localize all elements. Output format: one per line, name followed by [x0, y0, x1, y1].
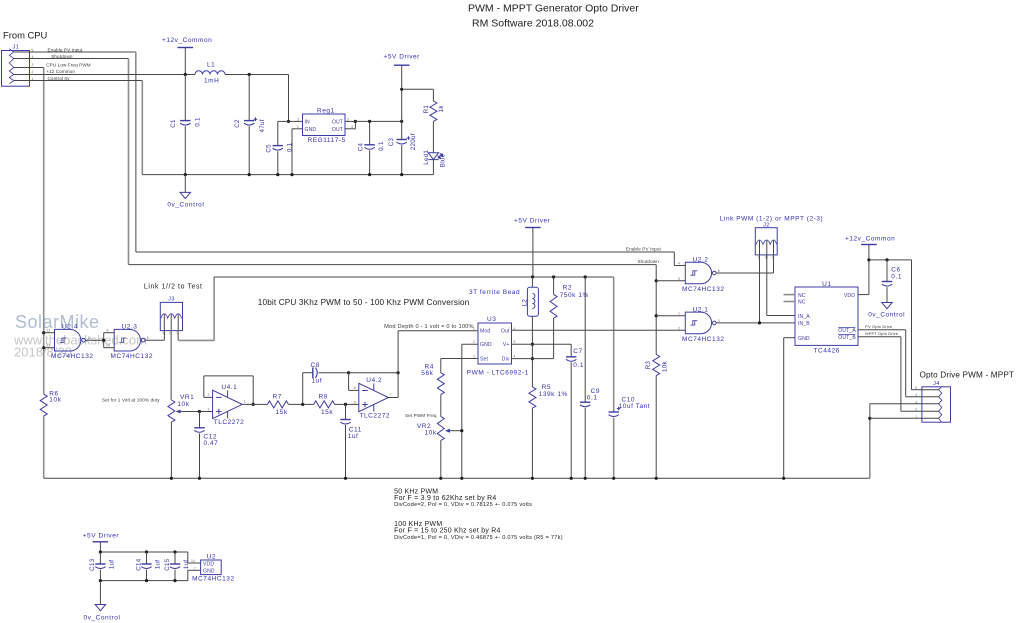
- wire U3 Div row to R2: [512, 358, 554, 360]
- wire U2.2 pin5 stub: [656, 280, 685, 282]
- wire U3 V+ row to C7: [512, 343, 572, 345]
- resistor R2 with top wire: [553, 277, 555, 295]
- svg-text:C2: C2: [234, 119, 241, 128]
- svg-text:C1: C1: [170, 119, 177, 128]
- svg-text:For F = 15 to 250 Khz set by R: For F = 15 to 250 Khz set by R4: [394, 528, 501, 535]
- wire 0v_Control rail (top): [142, 174, 433, 176]
- svg-text:1: 1: [297, 125, 299, 129]
- junction C13 top: [99, 550, 102, 553]
- wire VR1 bottom to rail: [170, 422, 172, 478]
- wire Enable PV Input drop to U2.2 pin4: [673, 252, 675, 266]
- svg-text:15k: 15k: [276, 409, 288, 416]
- svg-text:2: 2: [347, 117, 349, 121]
- wire R4 to VR2: [440, 395, 442, 417]
- svg-text:RM Software 2018.08.002: RM Software 2018.08.002: [472, 18, 594, 30]
- svg-text:CPU Low Freq PWM: CPU Low Freq PWM: [46, 62, 91, 67]
- svg-text:4: 4: [915, 393, 917, 397]
- svg-text:3: 3: [297, 117, 299, 121]
- trimmer VR2: [437, 417, 444, 441]
- svg-text:REG1117-5: REG1117-5: [308, 137, 346, 144]
- connector J4: [922, 387, 951, 422]
- svg-text:1uf: 1uf: [348, 433, 359, 440]
- resistor R5: [529, 387, 536, 408]
- svg-text:4: 4: [514, 355, 516, 359]
- junction C4 bottom: [368, 173, 371, 176]
- wire U2.1 out to U1 IN_B: [717, 322, 795, 324]
- svg-text:R1: R1: [423, 105, 430, 114]
- svg-text:15k: 15k: [321, 409, 333, 416]
- nand gate U2.3: [114, 329, 140, 351]
- junction U2.3 input tie: [102, 339, 105, 342]
- capacitor C6: [886, 260, 888, 282]
- svg-text:J3: J3: [168, 297, 175, 303]
- op-amp U4.1: [213, 390, 243, 418]
- wire Reg1 OUT pins join: [345, 120, 355, 122]
- svg-text:Div: Div: [502, 357, 510, 363]
- junction rail VR2: [439, 477, 442, 480]
- svg-text:7: 7: [194, 566, 196, 570]
- svg-text:1: 1: [678, 312, 680, 316]
- wire +12v to J4 pin5: [869, 259, 912, 261]
- wire J2 pin2 to IN_A: [766, 255, 768, 316]
- wire J1 pin2 +12 Common to rail: [30, 74, 196, 76]
- IC U1 box: [795, 287, 858, 345]
- wire U3 Set to R4: [441, 358, 478, 360]
- svg-text:R3: R3: [645, 360, 652, 369]
- svg-text:5: 5: [514, 340, 516, 344]
- junction rail U1 GND: [782, 477, 785, 480]
- svg-text:56k: 56k: [421, 370, 433, 377]
- svg-text:12: 12: [47, 329, 51, 333]
- inductor L1: [195, 71, 225, 75]
- capacitor C12: [199, 412, 201, 428]
- wire U4.2 - input: [348, 373, 350, 391]
- svg-text:R5: R5: [542, 384, 551, 391]
- capacitor C2: [248, 75, 250, 121]
- svg-text:Blue: Blue: [439, 153, 446, 167]
- svg-text:MC74HC132: MC74HC132: [51, 353, 94, 360]
- svg-text:1uf: 1uf: [108, 560, 115, 570]
- wire C8 branch up: [302, 373, 304, 405]
- wire U1 OUT_A to J4 pin4: [858, 329, 906, 331]
- svg-text:220uf: 220uf: [410, 133, 417, 150]
- svg-text:U2.1: U2.1: [693, 307, 709, 314]
- svg-text:L2: L2: [521, 299, 528, 307]
- nand gate U2.2: [685, 262, 711, 284]
- svg-text:0v_Control: 0v_Control: [84, 615, 121, 622]
- wire Shutdown horizontal to R3 node: [129, 264, 657, 266]
- junction C3 top: [400, 120, 403, 123]
- svg-text:10k: 10k: [177, 401, 189, 408]
- capacitor C11: [345, 404, 347, 419]
- wire J4 pin3 to ground: [870, 403, 922, 405]
- wire J3 pin2 to VR1: [170, 331, 172, 400]
- junction C15 bottom: [173, 579, 176, 582]
- svg-text:4: 4: [678, 262, 680, 266]
- svg-text:2: 2: [473, 340, 475, 344]
- junction C6 tap: [885, 258, 888, 261]
- wire J1 pin3 CPU PWM horizontal: [30, 67, 44, 69]
- junction L1/C2: [248, 73, 251, 76]
- svg-text:1k: 1k: [438, 105, 445, 113]
- ground 0v_Control (bottom): [95, 605, 105, 611]
- svg-text:9: 9: [107, 329, 109, 333]
- svg-text:R8: R8: [319, 393, 328, 400]
- svg-text:Set for 1 Volt at 100% duty: Set for 1 Volt at 100% duty: [102, 397, 160, 402]
- IC U3 box: [478, 323, 512, 364]
- junction rail VR1: [170, 477, 173, 480]
- wire U2.3 out to J3 pin1: [145, 339, 164, 341]
- svg-text:L1: L1: [207, 62, 215, 69]
- svg-text:10k: 10k: [49, 397, 61, 404]
- junction Shutdown at U2.1: [655, 314, 658, 317]
- svg-text:+12v_Common: +12v_Common: [845, 235, 895, 242]
- svg-text:TLC2272: TLC2272: [360, 412, 391, 419]
- junction C1 bottom: [184, 173, 187, 176]
- wire U2.4 out to U2.3 inputs: [85, 339, 103, 341]
- wire feedback row to output: [349, 372, 399, 374]
- junction C3 bottom: [400, 173, 403, 176]
- svg-text:2: 2: [32, 70, 34, 74]
- svg-text:C6: C6: [891, 267, 900, 274]
- junction rail C10: [612, 477, 615, 480]
- wire U1 GND to rail: [784, 337, 795, 339]
- svg-text:DivCode=2, Pol = 0, VDiv = 0.7: DivCode=2, Pol = 0, VDiv = 0.78125 +- 0.…: [394, 502, 532, 508]
- svg-text:1: 1: [473, 327, 475, 331]
- resistor R4: [437, 373, 444, 395]
- svg-text:3: 3: [32, 63, 34, 67]
- junction rail C12: [198, 477, 201, 480]
- ferrite bead L2: [531, 277, 533, 287]
- wire J1 pin5 Enable PV Input horizontal: [30, 51, 136, 53]
- wire R1 to Led1: [432, 121, 434, 152]
- svg-text:PV Opto Drive: PV Opto Drive: [865, 324, 893, 329]
- junction VR2 wiper to GND line: [460, 429, 463, 432]
- svg-text:IN: IN: [305, 120, 311, 126]
- svg-text:7: 7: [390, 393, 392, 397]
- svg-text:+5V Driver: +5V Driver: [83, 532, 120, 539]
- svg-text:Set PWM Freq: Set PWM Freq: [405, 413, 437, 418]
- connector J2: [755, 228, 777, 255]
- svg-text:10uf Tant: 10uf Tant: [619, 403, 651, 410]
- svg-text:0.1: 0.1: [287, 142, 294, 152]
- wire 0v rail (bottom block): [100, 580, 187, 582]
- svg-text:GND: GND: [305, 127, 317, 133]
- svg-text:5: 5: [678, 277, 680, 281]
- svg-text:139k 1%: 139k 1%: [539, 391, 568, 398]
- svg-text:DivCode=1, Pol = 0, VDiv = 0.4: DivCode=1, Pol = 0, VDiv = 0.46875 +- 0.…: [394, 535, 563, 541]
- svg-text:Reg1: Reg1: [317, 108, 335, 115]
- svg-text:10k: 10k: [425, 430, 437, 437]
- svg-text:0v_Control: 0v_Control: [167, 202, 204, 209]
- svg-text:Opto Drive PWM - MPPT: Opto Drive PWM - MPPT: [920, 371, 1015, 380]
- svg-text:OUT: OUT: [332, 127, 343, 133]
- wire +5V node across C4 C3: [355, 120, 401, 122]
- svg-text:8: 8: [147, 336, 149, 340]
- svg-text:0v_Control: 0v_Control: [868, 311, 905, 318]
- junction IN_B at J2 pin1: [758, 321, 761, 324]
- wire R7 to R8: [288, 403, 313, 405]
- svg-text:Link PWM (1-2) or MPPT (2-3): Link PWM (1-2) or MPPT (2-3): [720, 215, 823, 222]
- svg-text:0.1: 0.1: [378, 141, 385, 151]
- junction R7/R8/C8: [301, 403, 304, 406]
- svg-text:R7: R7: [273, 393, 282, 400]
- svg-text:GND: GND: [480, 342, 492, 348]
- svg-text:J4: J4: [933, 381, 940, 387]
- svg-text:GND: GND: [798, 336, 810, 342]
- wire U1 OUT_B to J4 pin2: [858, 336, 901, 338]
- svg-text:TC4426: TC4426: [814, 348, 840, 355]
- svg-text:U2: U2: [207, 553, 216, 560]
- wire U4.1 feedback loop: [204, 396, 213, 398]
- op-amp U4.2: [359, 383, 389, 411]
- svg-text:Enable PV Input: Enable PV Input: [626, 247, 662, 252]
- capacitor C3: [401, 121, 403, 139]
- svg-text:3T ferrite Bead: 3T ferrite Bead: [469, 289, 520, 296]
- capacitor C15: [174, 552, 176, 564]
- junction Reg1 GND bottom: [290, 173, 293, 176]
- wire Enable PV Input horizontal to U2.2: [136, 251, 675, 253]
- nand gate U2.1: [685, 312, 711, 334]
- capacitor C5: [273, 145, 283, 147]
- wire J4 pin1 stub: [870, 417, 922, 419]
- junction Shutdown at U2.2: [655, 279, 658, 282]
- svg-text:Set: Set: [480, 357, 488, 363]
- svg-text:C8: C8: [311, 362, 320, 369]
- svg-text:5: 5: [915, 386, 917, 390]
- resistor R1: [430, 101, 437, 121]
- svg-text:U4.2: U4.2: [366, 377, 382, 384]
- svg-text:OUT_A: OUT_A: [838, 328, 856, 334]
- svg-text:13: 13: [47, 344, 51, 348]
- capacitor C13: [99, 552, 101, 564]
- wire Shutdown vertical: [128, 59, 130, 265]
- regulator Reg1 box: [303, 114, 346, 136]
- svg-text:OUT: OUT: [332, 120, 343, 126]
- svg-text:MC74HC132: MC74HC132: [682, 286, 725, 293]
- svg-text:2: 2: [208, 393, 210, 397]
- junction U4.2 output node: [397, 371, 400, 374]
- junction VR1 wiper node: [198, 410, 201, 413]
- wire U4.2 out up to Mod: [387, 397, 399, 399]
- svg-text:1: 1: [162, 331, 164, 335]
- svg-text:10k: 10k: [662, 361, 669, 372]
- svg-text:0.1: 0.1: [891, 274, 902, 281]
- svg-text:0.1: 0.1: [587, 394, 598, 401]
- svg-text:Shutdown: Shutdown: [638, 259, 660, 264]
- wire J1 pin1 Control 0v horizontal: [30, 80, 143, 82]
- svg-text:From CPU: From CPU: [3, 30, 48, 41]
- wire J1 pin4 Shutdown horizontal: [30, 58, 129, 60]
- svg-text:6: 6: [718, 269, 720, 273]
- svg-text:2: 2: [915, 408, 917, 412]
- junction +5V at L2: [531, 275, 534, 278]
- wire Enable PV Input vertical: [135, 52, 137, 252]
- junction +5V at C9: [584, 275, 587, 278]
- svg-text:+12 Common: +12 Common: [46, 69, 75, 74]
- junction C15 top: [173, 550, 176, 553]
- wire to ground (bottom block): [99, 581, 101, 605]
- svg-text:C7: C7: [573, 348, 582, 355]
- junction Reg1 OUT: [354, 120, 357, 123]
- wire L1 to C2 node: [225, 74, 289, 76]
- svg-text:C13: C13: [89, 558, 96, 571]
- IC U2 box: [201, 560, 222, 575]
- capacitor C9: [584, 277, 586, 402]
- junction U4.2 feedback: [347, 371, 350, 374]
- svg-text:MC74HC132: MC74HC132: [682, 336, 725, 343]
- junction rail R5: [531, 477, 534, 480]
- wire Shutdown vertical to R3: [655, 265, 657, 355]
- svg-text:IN_A: IN_A: [798, 314, 810, 320]
- svg-text:C3: C3: [388, 138, 395, 147]
- junction Reg1 IN node: [287, 120, 290, 123]
- svg-text:PWM - MPPT Generator Opto Driv: PWM - MPPT Generator Opto Driver: [468, 3, 639, 15]
- junction J4 pin1 tap: [868, 417, 871, 420]
- svg-text:47uf: 47uf: [259, 119, 266, 132]
- svg-text:1uf: 1uf: [183, 560, 190, 570]
- junction U2.4 input A: [42, 331, 45, 334]
- wire U2.4 input stubs: [44, 332, 55, 334]
- junction +12v rail at C1: [184, 73, 187, 76]
- svg-text:Mod Depth 0 - 1 volt = 0 to 10: Mod Depth 0 - 1 volt = 0 to 100%: [384, 324, 474, 330]
- svg-text:10: 10: [106, 344, 110, 348]
- wire to U2 VDD: [187, 552, 189, 563]
- svg-text:C4: C4: [357, 142, 364, 151]
- svg-text:C14: C14: [135, 558, 142, 571]
- capacitor C4: [369, 121, 371, 144]
- junction U4.1 output: [252, 403, 255, 406]
- wire R6 to 0v rail: [43, 416, 45, 478]
- junction C5 bottom: [276, 173, 279, 176]
- svg-text:VDD: VDD: [844, 293, 855, 299]
- svg-text:Out: Out: [501, 329, 510, 335]
- wire J2 pin1 to IN_B node: [759, 255, 761, 323]
- svg-text:3: 3: [208, 408, 210, 412]
- svg-text:750k 1%: 750k 1%: [560, 292, 589, 299]
- svg-text:MPPT Opto Drive: MPPT Opto Drive: [865, 331, 898, 336]
- svg-text:11: 11: [88, 336, 92, 340]
- svg-text:14: 14: [191, 559, 195, 563]
- U1 NC stubs: [784, 294, 796, 296]
- junction L2/V+ row: [531, 343, 534, 346]
- capacitor C10: [613, 277, 615, 412]
- svg-text:C15: C15: [164, 558, 171, 571]
- wire Led1 to 0v rail: [432, 160, 434, 175]
- wire R8 to U4.2 +: [335, 403, 359, 405]
- svg-text:0.1: 0.1: [195, 117, 202, 127]
- svg-text:10bit CPU 3Khz PWM to 50 - 100: 10bit CPU 3Khz PWM to 50 - 100 Khz PWM C…: [258, 298, 470, 307]
- svg-text:2: 2: [678, 327, 680, 331]
- junction rail U3 GND: [460, 477, 463, 480]
- svg-text:J1: J1: [13, 45, 20, 51]
- svg-text:NC: NC: [798, 300, 806, 306]
- svg-text:4: 4: [351, 125, 353, 129]
- svg-text:U3: U3: [487, 316, 496, 323]
- junction +5V branch to R1: [400, 88, 403, 91]
- svg-text:U4.1: U4.1: [221, 384, 237, 391]
- svg-text:C5: C5: [266, 144, 273, 153]
- wire +5V rail (bottom block): [100, 551, 187, 553]
- svg-text:+5V Driver: +5V Driver: [384, 54, 421, 61]
- resistor R7: [268, 401, 289, 408]
- junction rail R3: [655, 477, 658, 480]
- connector J3: [160, 302, 182, 330]
- svg-text:Link 1//2 to Test: Link 1//2 to Test: [144, 284, 203, 291]
- svg-text:1mH: 1mH: [204, 78, 219, 85]
- wire J3 pin3 to +5V node: [177, 331, 179, 341]
- wire U3 GND down: [462, 343, 478, 345]
- svg-text:0.47: 0.47: [204, 440, 219, 447]
- svg-text:V+: V+: [503, 342, 510, 348]
- wire CPU PWM vertical to U2.4 and R6: [43, 68, 45, 395]
- ground 0v_Control (top): [184, 175, 186, 193]
- svg-text:+12v_Common: +12v_Common: [162, 37, 212, 44]
- svg-text:U1: U1: [822, 281, 831, 288]
- resistor R8: [314, 401, 335, 408]
- junction C13 bottom: [99, 579, 102, 582]
- junction Div row at R5: [531, 357, 534, 360]
- svg-text:VDD: VDD: [203, 561, 214, 567]
- svg-text:U2.4: U2.4: [62, 324, 78, 331]
- wire U2.1 pin1 stub: [656, 315, 685, 317]
- power +12v_Common (top): [178, 47, 194, 49]
- svg-text:OUT_B: OUT_B: [838, 335, 856, 341]
- junction U2.4 input B: [42, 346, 45, 349]
- capacitor C8: [312, 368, 314, 378]
- junction C2 bottom: [248, 173, 251, 176]
- wire +5V to R1: [402, 88, 434, 90]
- junction C4 top: [368, 120, 371, 123]
- svg-text:1uf: 1uf: [155, 560, 162, 570]
- wire Control 0v vertical: [141, 81, 143, 175]
- svg-text:3: 3: [772, 255, 774, 259]
- junction C14 bottom: [145, 579, 148, 582]
- junction rail C7: [570, 477, 573, 480]
- svg-text:TLC2272: TLC2272: [214, 419, 245, 426]
- wire VR2 bottom to rail: [440, 440, 442, 478]
- svg-text:IN_B: IN_B: [798, 321, 810, 327]
- svg-text:5: 5: [354, 400, 356, 404]
- LED Led1: [428, 153, 438, 160]
- ground 0v_Control (C6): [882, 303, 892, 309]
- junction rail C11: [344, 477, 347, 480]
- resistor R6: [40, 394, 47, 416]
- resistor R3: [653, 355, 660, 376]
- wire IN node to C5: [278, 120, 289, 122]
- svg-text:6: 6: [354, 386, 356, 390]
- svg-text:0.1: 0.1: [573, 362, 584, 369]
- capacitor C14: [146, 552, 148, 564]
- capacitor C7: [566, 356, 576, 358]
- connector J1: [2, 51, 30, 87]
- junction C14 top: [145, 550, 148, 553]
- wire U1 VDD: [858, 294, 869, 296]
- svg-text:+5V Driver: +5V Driver: [514, 218, 551, 225]
- svg-text:Led1: Led1: [423, 150, 430, 165]
- svg-text:1: 1: [244, 400, 246, 404]
- wire wiper to U4.1 +: [200, 411, 213, 413]
- wire Reg1 IN stub: [289, 120, 303, 122]
- wire Reg1 GND to 0v rail: [292, 128, 303, 130]
- wire +5V node row: [214, 276, 614, 278]
- nand gate U2.4: [55, 329, 81, 351]
- junction +5V at R2: [552, 275, 555, 278]
- svg-text:NC: NC: [798, 293, 806, 299]
- junction rail C9: [584, 477, 587, 480]
- junction C11 top: [344, 403, 347, 406]
- wire U4.1 out to R7: [242, 403, 267, 405]
